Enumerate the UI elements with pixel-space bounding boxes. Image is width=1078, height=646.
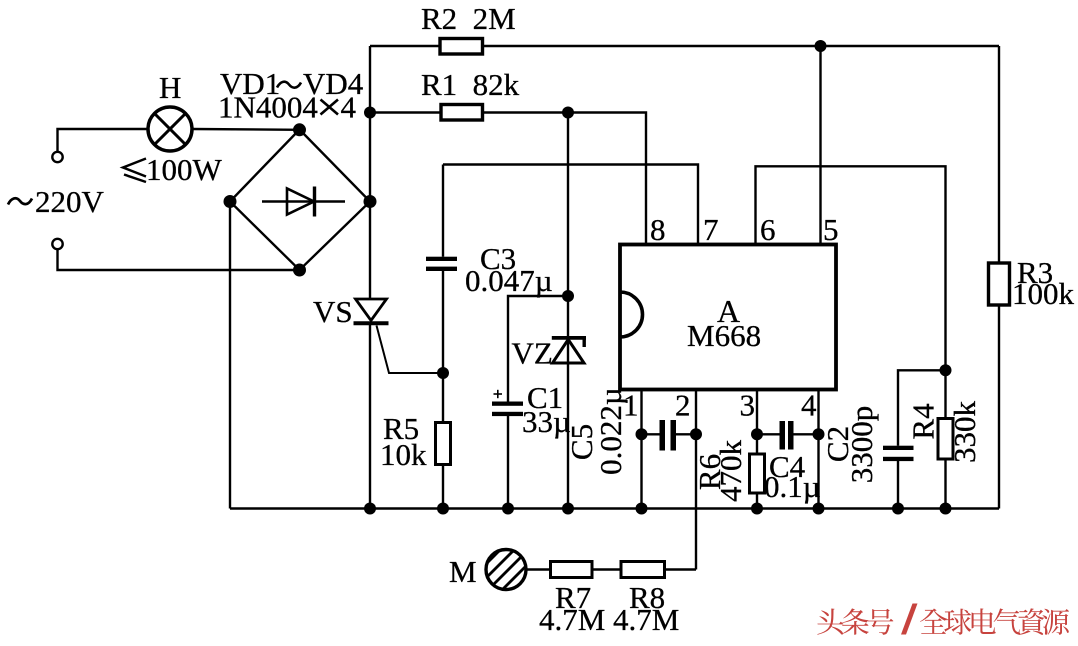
junction: pin 3 at C4 left — [751, 428, 763, 440]
capacitor C1 plates — [492, 402, 523, 417]
resistor R1 — [441, 105, 483, 121]
junction: pin 6 wire at R4 top — [940, 364, 952, 376]
svg-text:H: H — [159, 70, 181, 105]
resistor R3 — [989, 263, 1010, 305]
wire: AC terminal 2 to bridge bottom vertex — [58, 250, 299, 271]
junction: bottom rail at C1 — [502, 503, 514, 515]
capacitor C5 plates — [660, 420, 677, 451]
junction: bottom rail at R5 — [437, 503, 449, 515]
svg-text:VS: VS — [313, 294, 353, 329]
tilde of ~220V — [8, 198, 32, 204]
wire: C3 top wire to pin 7 — [443, 165, 698, 245]
wire: VS cathode down to bottom rail — [369, 324, 371, 509]
terminal circle top — [52, 152, 62, 162]
node: bridge left vertex (DC minus) — [224, 195, 237, 208]
watermark char 資 — [1019, 608, 1045, 635]
wire: pin 1 vertical — [640, 390, 642, 509]
capacitor C2 plates — [883, 446, 914, 461]
svg-text:0.022µ: 0.022µ — [593, 387, 628, 475]
capacitor C4 plates — [780, 421, 794, 450]
wire: R2 rail — [370, 45, 999, 47]
watermark char 源 — [1043, 609, 1070, 635]
thyristor VS — [354, 299, 444, 373]
junction: VZ line at C1 branch — [562, 290, 574, 302]
svg-text:330k: 330k — [947, 401, 982, 464]
wire: VZ vertical from R1 rail — [567, 113, 569, 509]
zener diode VZ — [552, 338, 586, 363]
svg-text:1N4004: 1N4004 — [218, 90, 318, 125]
bridge rectifier VD1~VD4 diamond — [230, 130, 370, 271]
watermark char 头 — [817, 609, 843, 635]
node: bridge right vertex (DC plus) — [364, 195, 377, 208]
svg-text:4.7M: 4.7M — [539, 602, 605, 637]
svg-text:2: 2 — [675, 388, 691, 423]
terminal circle bottom — [52, 239, 62, 249]
wire: C1 branch — [508, 296, 568, 402]
junction: bottom rail at C2 — [892, 503, 904, 515]
resistor R8 — [621, 562, 665, 578]
watermark char 电 — [972, 608, 996, 634]
svg-text:4.7M: 4.7M — [613, 602, 679, 637]
resistor R6 — [750, 454, 765, 493]
svg-text:R4: R4 — [906, 403, 941, 440]
capacitor C5 stubs — [642, 433, 660, 435]
resistor R5 — [436, 423, 451, 465]
IC A M668 box — [620, 245, 836, 390]
node: bridge bottom vertex (AC in from mains) — [293, 264, 306, 277]
svg-text:M668: M668 — [687, 318, 761, 353]
svg-text:100k: 100k — [1012, 276, 1075, 311]
wire: R4 vertical — [944, 370, 946, 418]
resistor R4 — [938, 419, 953, 460]
wire: R8 up to pin2 line — [665, 568, 697, 570]
watermark char 全 — [920, 609, 947, 634]
motor M circle with hatch — [475, 538, 540, 605]
junction: pin 2 at C5 right — [690, 428, 702, 440]
node: bridge top vertex (AC in from lamp) — [293, 123, 306, 136]
wire: R3 vertical right side — [998, 46, 1000, 263]
svg-text:3300p: 3300p — [844, 406, 879, 484]
svg-text:4: 4 — [801, 388, 817, 423]
svg-text:100W: 100W — [146, 152, 223, 187]
junction: bottom rail at pin 1 — [636, 503, 648, 515]
junction: pin 4 at C4 right — [813, 428, 825, 440]
svg-text:220V: 220V — [35, 184, 105, 219]
lamp H — [148, 107, 192, 151]
svg-text:0.047µ: 0.047µ — [465, 263, 553, 298]
svg-text:R2 2M: R2 2M — [421, 1, 516, 36]
svg-text:M: M — [449, 554, 477, 589]
wire: R1 rail — [370, 113, 646, 245]
junction: bottom rail at VZ — [562, 503, 574, 515]
wire: bottom rail — [230, 507, 999, 509]
resistor R2 — [440, 39, 483, 55]
svg-text:10k: 10k — [380, 437, 427, 472]
svg-text:0.1µ: 0.1µ — [764, 469, 821, 504]
less-than-or-equal symbol of <=100W — [123, 159, 146, 183]
wire: R7 to R8 — [592, 568, 621, 570]
watermark slash — [901, 604, 918, 635]
wire: AC terminal 1 to lamp — [58, 129, 149, 152]
watermark char 气 — [994, 608, 1021, 634]
svg-text:470k: 470k — [713, 440, 748, 503]
bridge inner diode — [262, 187, 345, 217]
wire: pin5 vertical to R2 rail — [819, 46, 821, 245]
svg-text:6: 6 — [760, 212, 776, 247]
junction: R1 rail at VS anode line — [364, 107, 376, 119]
wire: pin 3 vertical — [756, 390, 758, 455]
svg-text:3: 3 — [740, 388, 756, 423]
wire: motor to R7 — [526, 568, 551, 570]
C1 plus sign — [494, 390, 503, 398]
junction: bottom rail at R6 — [751, 503, 763, 515]
svg-text:4: 4 — [341, 90, 357, 125]
wire: right vertex vertical (R2 rail down through VS anode) — [369, 46, 371, 299]
wire: pin 6 wire to R4 junction — [756, 166, 946, 370]
capacitor C3 plates — [426, 257, 457, 271]
svg-text:VZ: VZ — [512, 336, 553, 371]
junction: VS gate at R5 line — [437, 367, 449, 379]
wire: C3/R5 vertical — [442, 165, 444, 257]
junction: bottom rail at pin 4 — [813, 503, 825, 515]
watermark char 号 — [867, 609, 893, 635]
svg-text:7: 7 — [703, 212, 719, 247]
watermark char 球 — [944, 609, 971, 635]
svg-text:R1 82k: R1 82k — [421, 67, 520, 102]
IC notch — [620, 292, 643, 337]
wire: bridge left vertex down to bottom rail — [229, 202, 231, 509]
wire: pin 4 vertical — [817, 390, 819, 509]
capacitor C4 stubs — [757, 433, 780, 435]
junction: bottom rail at R4 — [940, 503, 952, 515]
watermark char 条 — [842, 608, 869, 634]
wire: junction to C2 — [898, 370, 946, 445]
junction: R1 rail at VZ branch — [562, 107, 574, 119]
junction: bottom rail at VS cathode — [364, 503, 376, 515]
wire: pin 2 vertical down to motor wire — [695, 390, 697, 570]
wire: lamp to bridge top vertex — [192, 128, 300, 131]
svg-text:5: 5 — [823, 212, 839, 247]
junction: R2 rail at pin 5 — [815, 40, 827, 52]
junction: pin 1 at C5 left — [636, 428, 648, 440]
resistor R7 — [551, 562, 593, 578]
svg-text:8: 8 — [650, 212, 666, 247]
